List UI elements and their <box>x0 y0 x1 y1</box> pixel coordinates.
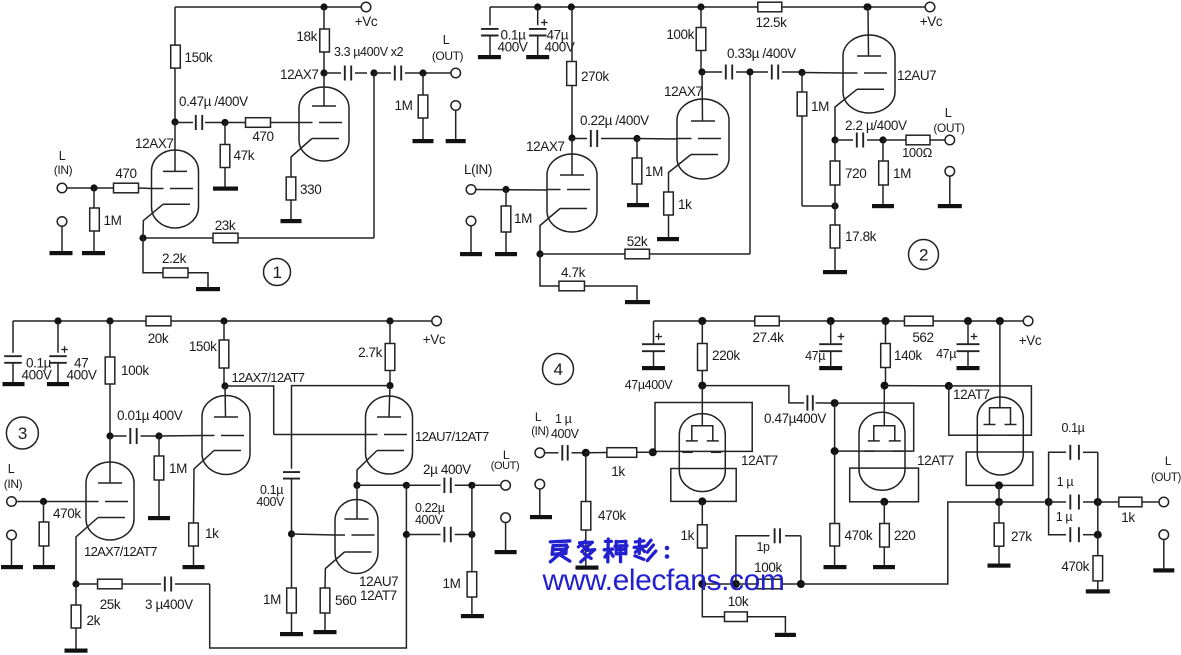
svg-text:2.2k: 2.2k <box>162 251 187 266</box>
svg-text:400V: 400V <box>498 40 528 55</box>
svg-text:12.5k: 12.5k <box>755 15 787 30</box>
svg-text:2.2 µ/400V: 2.2 µ/400V <box>845 118 907 133</box>
svg-text:100k: 100k <box>666 27 694 42</box>
svg-text:17.8k: 17.8k <box>845 229 877 244</box>
svg-text:1M: 1M <box>104 213 122 228</box>
svg-text:L: L <box>945 106 952 120</box>
svg-text:0.33µ /400V: 0.33µ /400V <box>727 46 796 61</box>
svg-text:0.47µ400V: 0.47µ400V <box>764 411 826 426</box>
svg-text:12AT7: 12AT7 <box>360 588 397 603</box>
svg-text:470k: 470k <box>1061 559 1089 574</box>
svg-text:47µ400V: 47µ400V <box>625 378 674 392</box>
svg-text:0.22µ /400V: 0.22µ /400V <box>580 113 649 128</box>
svg-text:0.47µ /400V: 0.47µ /400V <box>179 94 248 109</box>
svg-text:1M: 1M <box>263 592 281 607</box>
svg-text:1M: 1M <box>811 99 829 114</box>
svg-text:0.1µ: 0.1µ <box>1062 421 1085 435</box>
svg-text:47k: 47k <box>234 148 255 163</box>
svg-text:(IN): (IN) <box>4 477 23 491</box>
svg-text:4.7k: 4.7k <box>561 265 586 280</box>
svg-text:400V: 400V <box>256 495 285 509</box>
svg-text:1 µ: 1 µ <box>555 412 572 426</box>
svg-text:1k: 1k <box>611 464 625 479</box>
svg-text:12AT7: 12AT7 <box>741 453 778 468</box>
svg-text:2µ 400V: 2µ 400V <box>423 462 471 477</box>
svg-text:L(IN): L(IN) <box>464 162 492 177</box>
svg-text:20k: 20k <box>148 331 169 346</box>
svg-text:1M: 1M <box>645 164 663 179</box>
svg-text:12AT7: 12AT7 <box>953 387 990 402</box>
svg-text:52k: 52k <box>627 234 648 249</box>
svg-text:470k: 470k <box>53 506 81 521</box>
svg-text:0.01µ 400V: 0.01µ 400V <box>117 408 183 423</box>
svg-text:12AX7: 12AX7 <box>280 67 319 82</box>
svg-text:12AT7: 12AT7 <box>917 453 954 468</box>
svg-text:+Vc: +Vc <box>920 14 943 29</box>
svg-text:1k: 1k <box>681 528 695 543</box>
svg-text:25k: 25k <box>100 597 121 612</box>
svg-text:400V: 400V <box>551 427 580 441</box>
svg-text:470: 470 <box>252 129 273 144</box>
svg-text:1M: 1M <box>893 166 911 181</box>
svg-text:2k: 2k <box>87 613 101 628</box>
svg-text:100k: 100k <box>121 363 149 378</box>
svg-text:400V: 400V <box>22 368 52 383</box>
svg-text:12AX7/12AT7: 12AX7/12AT7 <box>232 370 305 385</box>
svg-text:(OUT): (OUT) <box>1151 472 1181 484</box>
svg-text:(OUT): (OUT) <box>491 460 520 472</box>
svg-text:400V: 400V <box>415 513 444 527</box>
svg-text:(IN): (IN) <box>531 426 549 438</box>
svg-text:47µ: 47µ <box>805 349 825 363</box>
svg-text:12AU7/12AT7: 12AU7/12AT7 <box>415 429 489 444</box>
svg-text:(OUT): (OUT) <box>432 49 464 63</box>
svg-text:(OUT): (OUT) <box>933 121 965 135</box>
svg-text:3 µ400V: 3 µ400V <box>145 597 193 612</box>
svg-text:3: 3 <box>18 424 27 443</box>
svg-text:+Vc: +Vc <box>423 332 446 347</box>
svg-text:18k: 18k <box>296 29 317 44</box>
svg-text:400V: 400V <box>545 40 575 55</box>
svg-text:1p: 1p <box>756 540 770 554</box>
svg-text:1M: 1M <box>443 576 461 591</box>
svg-text:12AX7: 12AX7 <box>664 84 703 99</box>
svg-text:47µ: 47µ <box>936 347 956 361</box>
svg-text:+Vc: +Vc <box>355 14 378 29</box>
svg-text:150k: 150k <box>189 339 217 354</box>
svg-text:12AX7: 12AX7 <box>135 136 174 151</box>
svg-text:330: 330 <box>300 182 321 197</box>
svg-text:1 µ: 1 µ <box>1057 475 1074 489</box>
svg-text:1k: 1k <box>678 197 692 212</box>
svg-text:L: L <box>1165 454 1172 468</box>
svg-text:270k: 270k <box>581 69 609 84</box>
svg-text:560: 560 <box>335 593 356 608</box>
svg-text:12AU7: 12AU7 <box>359 574 398 589</box>
svg-text:720: 720 <box>845 166 866 181</box>
svg-text:23k: 23k <box>215 218 236 233</box>
svg-text:L: L <box>8 462 15 476</box>
svg-text:470k: 470k <box>845 528 873 543</box>
svg-text:100Ω: 100Ω <box>902 145 932 160</box>
svg-text:1M: 1M <box>514 211 532 226</box>
svg-text:2.7k: 2.7k <box>358 345 383 360</box>
svg-text:1M: 1M <box>169 461 187 476</box>
svg-text:1k: 1k <box>1121 510 1135 525</box>
svg-text:562: 562 <box>912 330 933 345</box>
svg-text:470: 470 <box>115 166 136 181</box>
svg-text:www.elecfans.com: www.elecfans.com <box>542 564 785 597</box>
svg-text:L: L <box>59 149 66 163</box>
svg-text:(IN): (IN) <box>54 163 73 177</box>
svg-text:220: 220 <box>894 528 915 543</box>
svg-text:140k: 140k <box>894 348 922 363</box>
svg-text:400V: 400V <box>67 368 97 383</box>
svg-text:1k: 1k <box>205 526 219 541</box>
svg-text:220k: 220k <box>712 348 740 363</box>
svg-text:12AX7: 12AX7 <box>526 139 565 154</box>
svg-text:L: L <box>443 33 450 47</box>
svg-text:2: 2 <box>919 246 928 265</box>
svg-text:470k: 470k <box>598 508 626 523</box>
svg-text:150k: 150k <box>185 50 213 65</box>
svg-text:1M: 1M <box>395 98 413 113</box>
svg-text:1: 1 <box>272 263 281 282</box>
svg-text:4: 4 <box>553 360 562 379</box>
svg-text:12AU7: 12AU7 <box>897 68 936 83</box>
svg-text:27k: 27k <box>1011 529 1032 544</box>
svg-text:+Vc: +Vc <box>1019 333 1042 348</box>
svg-text:L: L <box>535 410 542 424</box>
svg-text:1 µ: 1 µ <box>1056 510 1073 524</box>
svg-text:12AX7/12AT7: 12AX7/12AT7 <box>84 544 157 559</box>
svg-text:27.4k: 27.4k <box>752 330 784 345</box>
svg-text:3.3 µ400V x2: 3.3 µ400V x2 <box>334 45 404 59</box>
